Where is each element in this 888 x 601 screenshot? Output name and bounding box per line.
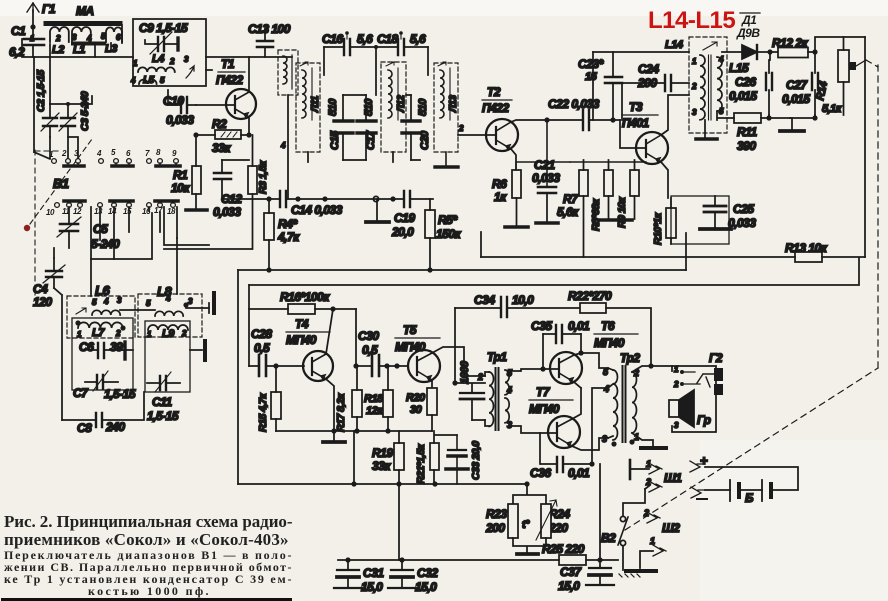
svg-text:5-240: 5-240 (91, 237, 120, 251)
coil L7 (75, 320, 125, 339)
ground y199 (376, 199, 378, 221)
resistor R17 8,2к (335, 366, 362, 432)
box L7 C6 C7 (72, 318, 133, 390)
svg-text:0,033: 0,033 (213, 205, 241, 219)
transistor T6 МП40 (509, 319, 638, 388)
transistor T3 П401 (620, 95, 689, 198)
svg-text:L2: L2 (52, 44, 64, 56)
svg-text:R23: R23 (486, 507, 507, 521)
svg-text:R6: R6 (492, 177, 507, 191)
svg-text:R10*1к: R10*1к (652, 212, 664, 245)
svg-text:510: 510 (363, 98, 375, 116)
svg-text:200: 200 (485, 521, 505, 535)
svg-text:С25: С25 (733, 202, 754, 216)
svg-text:П422: П422 (482, 101, 509, 115)
svg-text:Б: Б (745, 491, 754, 505)
svg-text:МП40: МП40 (529, 402, 560, 416)
svg-text:L9: L9 (162, 328, 175, 340)
svg-text:С36: С36 (530, 466, 551, 480)
svg-text:С13 100: С13 100 (248, 22, 291, 36)
capacitor C30 0,5 (353, 309, 408, 376)
capacitor C14 0,033 (280, 191, 343, 217)
svg-text:Т6: Т6 (601, 319, 615, 333)
svg-text:R18: R18 (364, 393, 384, 405)
svg-text:15,0: 15,0 (415, 580, 437, 594)
svg-text:МА: МА (76, 4, 94, 18)
ferrite rod MA (46, 4, 122, 24)
svg-text:6,2: 6,2 (9, 45, 25, 59)
resistor R19 33к (372, 431, 404, 484)
svg-text:С27: С27 (786, 78, 808, 92)
svg-text:3: 3 (602, 434, 607, 444)
svg-text:18: 18 (167, 207, 176, 216)
svg-text:33к: 33к (372, 459, 391, 473)
svg-text:Л12: Л12 (396, 95, 407, 113)
capacitor C34 10,0 (455, 293, 580, 383)
svg-text:Л13: Л13 (448, 95, 459, 113)
capacitor C9 1,5-15 (139, 21, 188, 54)
resistor R23 200 (485, 484, 546, 538)
wire B1 left drop (33, 57, 35, 152)
coil L5 (130, 75, 165, 86)
resistor R2 33к (193, 117, 251, 155)
battery Б (690, 453, 798, 505)
svg-text:t°: t° (522, 519, 530, 531)
resistor R1 10к (171, 135, 201, 209)
transistor T1 П422 (196, 57, 256, 135)
antenna Г1 (27, 2, 56, 38)
svg-text:Т3: Т3 (629, 100, 643, 114)
svg-text:С8: С8 (77, 421, 92, 435)
wire Тр2 tap down (599, 464, 601, 560)
svg-text:L14-L15: L14-L15 (648, 7, 735, 34)
svg-text:R22*270: R22*270 (568, 289, 612, 303)
resistor R10 1к (652, 198, 676, 245)
IF transformer L12 (381, 62, 407, 162)
resistor R6 1к (492, 170, 521, 226)
svg-text:240: 240 (105, 420, 125, 434)
svg-text:0,01: 0,01 (568, 319, 590, 333)
svg-text:L15: L15 (729, 61, 749, 75)
svg-text:приемников «Сокол» и «Сокол-40: приемников «Сокол» и «Сокол-403» (4, 530, 288, 549)
svg-text:13: 13 (94, 207, 103, 216)
resistor R4 4,7к (264, 199, 300, 270)
resistor R15 4,7к (257, 366, 281, 432)
transistor T7 МП40 (509, 385, 608, 450)
trimmer capacitor C11 1,5-15 (147, 372, 180, 423)
svg-text:Ш1: Ш1 (664, 471, 682, 485)
wire L15 top to diode (722, 51, 742, 53)
ground R6 (505, 225, 528, 229)
capacitor C23 15 (578, 52, 622, 123)
resistor R16 100к (249, 290, 356, 314)
svg-text:С11: С11 (152, 395, 172, 409)
svg-text:Ш2: Ш2 (662, 521, 680, 535)
svg-text:0,015: 0,015 (782, 92, 810, 106)
resistor R11 390 (717, 112, 790, 153)
svg-text:15,0: 15,0 (361, 580, 383, 594)
svg-text:510: 510 (327, 98, 339, 116)
svg-text:L4: L4 (152, 53, 164, 65)
svg-text:Г1: Г1 (42, 2, 56, 16)
svg-text:С32: С32 (417, 566, 438, 580)
svg-text:С9 1,5-15: С9 1,5-15 (139, 21, 188, 35)
coil L6 (67, 283, 135, 338)
resistor R18 12к (364, 366, 393, 431)
transformer Тр1 (472, 350, 513, 430)
svg-text:0,033: 0,033 (166, 113, 194, 127)
svg-text:15: 15 (585, 71, 598, 83)
svg-text:2: 2 (645, 477, 651, 487)
diode Д1 (742, 45, 778, 59)
coil L9 (147, 325, 188, 340)
svg-text:4: 4 (506, 385, 512, 395)
svg-text:R17 8,2к: R17 8,2к (335, 393, 347, 432)
svg-text:L5: L5 (143, 75, 155, 86)
coil L1 (72, 27, 104, 56)
speaker box (672, 366, 716, 432)
resistor R25 220 (542, 542, 586, 565)
svg-text:10,0: 10,0 (512, 293, 534, 307)
svg-text:120: 120 (33, 295, 52, 309)
svg-text:С4: С4 (33, 282, 48, 296)
wire detector bottom (769, 115, 815, 118)
svg-text:С33 20,0: С33 20,0 (470, 441, 482, 480)
svg-text:С19: С19 (394, 211, 415, 225)
svg-text:С28: С28 (251, 327, 272, 341)
svg-text:С18: С18 (377, 32, 398, 46)
svg-text:0,5: 0,5 (362, 343, 378, 357)
capacitor C21 0,033 (532, 117, 560, 223)
wire L4 to T1 (206, 57, 292, 70)
svg-text:С1: С1 (11, 24, 26, 38)
capacitor C12 0,033 (213, 160, 249, 219)
ground B2 (626, 569, 656, 573)
resistor R9 10к (600, 160, 639, 228)
svg-text:30: 30 (410, 404, 423, 416)
wire T2 T3 base row (570, 161, 646, 163)
svg-text:L8: L8 (157, 284, 172, 299)
ground R23 (517, 552, 538, 556)
svg-text:R11: R11 (737, 125, 757, 139)
bus y484 (238, 483, 527, 485)
svg-text:С3 5-240: С3 5-240 (79, 91, 91, 131)
svg-text:С24: С24 (638, 62, 659, 76)
svg-text:С16: С16 (322, 32, 343, 46)
transistor T4 МП40 (286, 309, 334, 431)
bus y560 (338, 559, 618, 561)
wire R19 down (398, 484, 400, 560)
svg-text:Гр: Гр (697, 413, 711, 427)
ground L13 (435, 152, 458, 167)
capacitor C1 6,2 (9, 24, 44, 59)
capacitor C13 100 (248, 22, 291, 57)
resistor R3 1,5к (248, 135, 269, 249)
capacitor C27 0,015 (782, 49, 818, 115)
svg-text:С34: С34 (474, 293, 495, 307)
svg-text:R20: R20 (406, 392, 426, 404)
capacitor C26 0,015 (729, 52, 772, 115)
svg-text:1000: 1000 (459, 360, 471, 384)
resistor R20 30 (406, 388, 437, 431)
wire C2 C3 bottom to switch (50, 137, 78, 158)
capacitor C22 0,033 (548, 97, 620, 130)
diode label Д1 Д9В (736, 13, 760, 40)
svg-text:В1: В1 (53, 176, 69, 191)
IF transformer L11 (296, 62, 321, 162)
coil L3 (101, 27, 122, 55)
capacitor C28 0,5 (249, 327, 304, 376)
capacitor C25 0,033 (700, 196, 756, 230)
red dot (24, 225, 30, 231)
capacitor C19 20,0 (391, 191, 415, 239)
svg-text:Д1: Д1 (741, 13, 757, 27)
dashed box L10 (278, 50, 298, 199)
ground detector (791, 118, 793, 130)
svg-text:Тр1: Тр1 (487, 350, 507, 364)
svg-text:Т1: Т1 (221, 57, 235, 71)
svg-text:4,7к: 4,7к (277, 230, 300, 244)
svg-text:15,0: 15,0 (558, 579, 580, 593)
svg-text:5,6: 5,6 (410, 32, 426, 46)
transformer L14 L15 box (665, 37, 749, 133)
svg-text:R2: R2 (212, 117, 227, 131)
dashed border B1 (34, 150, 36, 295)
svg-text:В2: В2 (601, 531, 616, 545)
svg-text:R5*: R5* (438, 213, 458, 227)
svg-text:R1: R1 (173, 168, 188, 182)
wire L2 tap down (49, 44, 51, 104)
ground R1 (186, 208, 207, 212)
dashed link line (625, 368, 878, 530)
svg-text:510: 510 (417, 98, 429, 116)
transistor T2 П422 (458, 85, 583, 170)
svg-text:0,01: 0,01 (568, 466, 590, 480)
svg-text:150к: 150к (436, 227, 462, 241)
svg-text:0,033: 0,033 (532, 171, 560, 185)
svg-text:1,5-15: 1,5-15 (147, 409, 179, 423)
svg-text:Т7: Т7 (536, 385, 551, 399)
svg-text:2: 2 (477, 372, 483, 382)
resistor R13 10к (785, 241, 828, 262)
capacitor C18 5,6 (377, 31, 426, 55)
wire y199 (222, 198, 433, 200)
svg-text:МП40: МП40 (594, 336, 625, 350)
svg-text:14: 14 (108, 207, 117, 216)
dashed link B1 (30, 139, 92, 224)
switch B1 row2 contacts (55, 203, 176, 208)
svg-text:1,5-15: 1,5-15 (104, 387, 136, 401)
connector Ш2 (640, 508, 680, 568)
svg-text:R24: R24 (549, 507, 570, 521)
svg-text:МП40: МП40 (286, 333, 317, 347)
svg-text:5,6к: 5,6к (557, 205, 579, 219)
switch B2 (601, 489, 645, 570)
speaker Гр (669, 390, 711, 427)
trimmer capacitor C5 5-240 (57, 207, 120, 251)
svg-text:С14 0,033: С14 0,033 (291, 203, 343, 217)
svg-text:0,015: 0,015 (729, 89, 757, 103)
svg-text:С23*: С23* (578, 57, 605, 71)
svg-text:33к: 33к (212, 141, 231, 155)
svg-text:Л11: Л11 (310, 95, 321, 113)
svg-text:С22 0,033: С22 0,033 (548, 97, 600, 111)
arrow tuning L4 (186, 66, 194, 78)
svg-text:R15 4,7к: R15 4,7к (257, 393, 269, 432)
coil L4 (133, 53, 189, 72)
caption title (4, 512, 293, 598)
resistor R8 68к (590, 160, 613, 231)
capacitor C32 15,0 (388, 560, 438, 594)
svg-text:20,0: 20,0 (391, 225, 414, 239)
svg-text:R7: R7 (563, 192, 579, 206)
resistor R5 150к (425, 199, 462, 270)
wire R12 R14 top loop (815, 37, 865, 52)
box C25 (671, 196, 729, 244)
svg-text:+: + (700, 453, 708, 468)
coil L2 (30, 27, 69, 56)
capacitor C35 0,01 (531, 319, 590, 372)
wire emitter bus y431 (276, 430, 432, 432)
wire y249 (164, 248, 252, 250)
svg-text:5,1к: 5,1к (822, 103, 843, 115)
svg-text:R8*68к: R8*68к (590, 198, 602, 231)
capacitor C10 0,033 (163, 90, 196, 127)
resistor R12 2к (772, 36, 815, 58)
capacitor C37 15,0 (558, 560, 614, 593)
trimmer capacitor C7 1,5-15 (73, 371, 136, 401)
resistor R21 1,5к (415, 431, 439, 484)
capacitor C17 510 (343, 95, 377, 160)
svg-text:С21: С21 (534, 158, 555, 172)
svg-text:МП40: МП40 (395, 340, 426, 354)
capacitor C36 0,01 (530, 433, 592, 480)
svg-text:С31: С31 (363, 566, 384, 580)
svg-text:С30: С30 (358, 329, 379, 343)
ground L14 (704, 120, 706, 138)
resistor R14 5,1к potentiometer (814, 37, 866, 115)
IF transformer L13 (434, 62, 459, 152)
jack Г2 (673, 351, 723, 430)
svg-text:Тр2: Тр2 (620, 351, 640, 365)
svg-text:R16*100к: R16*100к (280, 290, 330, 304)
wire C4 column (54, 248, 62, 420)
switch B1 row1 contacts (52, 159, 179, 164)
capacitor C15 510 (327, 95, 353, 160)
svg-text:3: 3 (507, 420, 512, 430)
capacitor C33 20,0 (435, 435, 482, 484)
thermistor R24 220 (513, 500, 570, 553)
wire C16 C18 (324, 46, 428, 48)
svg-text:12к: 12к (366, 405, 384, 417)
svg-text:Рис. 2. Принципиальная схема р: Рис. 2. Принципиальная схема радио- (4, 512, 293, 531)
variable capacitor C3 5-240 (59, 91, 91, 137)
wire antenna bus (33, 45, 133, 57)
svg-text:С35: С35 (531, 319, 552, 333)
svg-text:С2 1,5-15: С2 1,5-15 (35, 70, 47, 112)
svg-text:10к: 10к (171, 181, 190, 195)
svg-text:L1: L1 (73, 44, 85, 56)
wire L3 tap (95, 25, 122, 57)
svg-text:R3 1,5к: R3 1,5к (257, 160, 269, 194)
svg-text:L7: L7 (92, 327, 105, 339)
capacitor C20 510 (402, 95, 431, 160)
svg-text:R25 220: R25 220 (542, 542, 585, 556)
svg-text:10: 10 (46, 208, 55, 217)
capacitor C6 39 (79, 340, 133, 359)
ground y431 (333, 431, 335, 441)
svg-text:R19: R19 (372, 446, 393, 460)
svg-text:С26: С26 (735, 75, 756, 89)
svg-text:С37: С37 (560, 565, 582, 579)
capacitor C16 5,6 (322, 31, 373, 55)
svg-text:С7: С7 (73, 386, 89, 400)
svg-text:П422: П422 (216, 73, 243, 87)
svg-text:Т5: Т5 (403, 323, 417, 337)
box L9 C11 (145, 321, 190, 392)
svg-text:Т2: Т2 (487, 85, 501, 99)
svg-text:1: 1 (650, 536, 655, 546)
svg-text:1: 1 (646, 459, 651, 469)
transformer Тр2 (589, 351, 640, 467)
bus y257 (481, 256, 865, 258)
switch B1 row2 bridges (64, 199, 178, 203)
ground Тр2 (632, 433, 653, 447)
svg-text:костью 1000 пф.: костью 1000 пф. (88, 584, 209, 598)
svg-text:Т4: Т4 (295, 317, 309, 331)
coil L8 (138, 284, 202, 337)
wire C2 C3 top (50, 96, 92, 104)
svg-text:17: 17 (154, 206, 163, 215)
svg-text:R4*: R4* (278, 217, 298, 231)
svg-text:П401: П401 (622, 116, 649, 130)
capacitor C31 15,0 (334, 560, 384, 594)
svg-text:Д9В: Д9В (736, 26, 760, 40)
black bar bottom (1, 598, 292, 601)
wire Тр2 to speaker (632, 366, 672, 372)
svg-text:R9 10к: R9 10к (616, 196, 628, 228)
switch B1 row1 digits (49, 148, 177, 159)
resistor R7 5,6к (557, 160, 588, 257)
resistor R22 270 (568, 289, 651, 366)
svg-text:15: 15 (123, 207, 132, 216)
frame AF outer (237, 270, 239, 484)
variable capacitor C4 120 (33, 258, 65, 309)
bus y271 (238, 269, 686, 271)
connector Ш1 (630, 459, 682, 492)
variable capacitor C2 1,5-15 (35, 70, 59, 137)
wire row2 to coils (91, 207, 114, 259)
svg-text:Г2: Г2 (709, 351, 723, 365)
svg-text:0,5: 0,5 (254, 341, 270, 355)
capacitor 1000 (452, 360, 485, 420)
svg-text:L14: L14 (665, 39, 683, 51)
svg-text:С6: С6 (79, 340, 94, 354)
wire y52 top (593, 51, 689, 53)
switch B1 row1 bridges (64, 164, 180, 168)
capacitor C24 200 (622, 62, 689, 120)
plate mid right (190, 349, 202, 351)
svg-text:5,6: 5,6 (357, 32, 373, 46)
svg-text:R21*1,5к: R21*1,5к (415, 444, 427, 484)
capacitor C8 240 (62, 392, 144, 435)
transistor T5 МП40 (395, 323, 485, 388)
plate top right (120, 308, 209, 310)
svg-text:1к: 1к (494, 190, 507, 204)
svg-text:390: 390 (737, 139, 756, 153)
switch B1 row2 digits (46, 206, 176, 217)
svg-text:12: 12 (73, 207, 82, 216)
